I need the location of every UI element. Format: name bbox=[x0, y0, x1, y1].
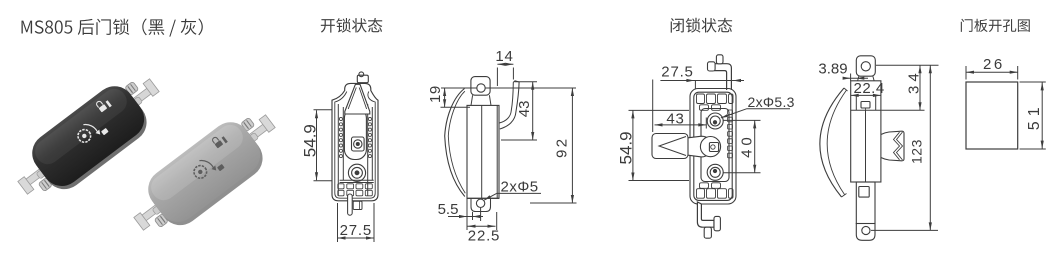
svg-text:54.9: 54.9 bbox=[301, 124, 320, 157]
svg-text:34: 34 bbox=[905, 69, 922, 94]
svg-text:51: 51 bbox=[1026, 102, 1043, 130]
svg-text:27.5: 27.5 bbox=[340, 222, 372, 239]
svg-text:2xΦ5.3: 2xΦ5.3 bbox=[748, 94, 795, 110]
svg-text:43: 43 bbox=[516, 101, 533, 118]
svg-text:26: 26 bbox=[983, 56, 1005, 73]
svg-text:27.5: 27.5 bbox=[661, 64, 693, 81]
svg-text:3.89: 3.89 bbox=[818, 61, 847, 78]
svg-text:19: 19 bbox=[427, 85, 444, 103]
svg-text:43: 43 bbox=[666, 110, 684, 127]
svg-text:92: 92 bbox=[553, 137, 570, 159]
svg-text:54.9: 54.9 bbox=[617, 131, 636, 164]
svg-text:5.5: 5.5 bbox=[438, 201, 459, 218]
svg-text:123: 123 bbox=[909, 139, 925, 164]
svg-text:14: 14 bbox=[495, 48, 513, 65]
svg-text:40: 40 bbox=[739, 133, 756, 158]
svg-text:22.5: 22.5 bbox=[468, 228, 500, 245]
